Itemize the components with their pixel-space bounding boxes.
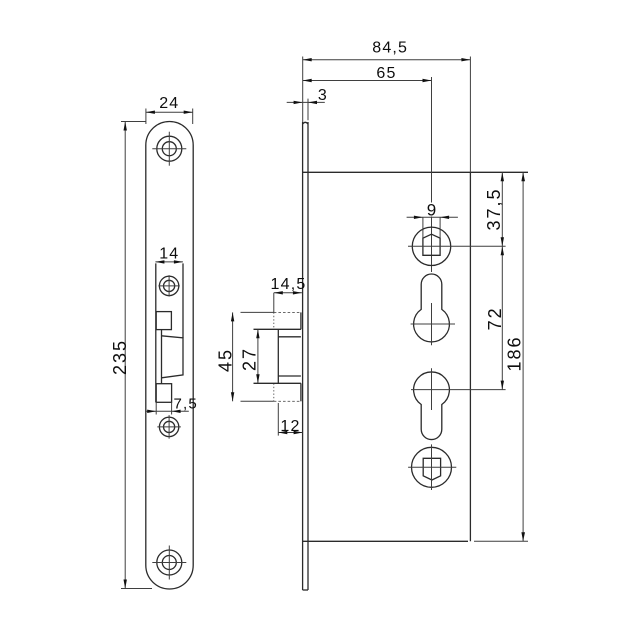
top screw hole [152, 132, 186, 166]
dimension 7,5 [146, 396, 198, 415]
svg-text:14: 14 [159, 246, 179, 263]
dimension 235 [110, 122, 152, 589]
dimension 12 [278, 403, 302, 436]
dimension 3 [287, 87, 327, 120]
upper small screw hole [158, 275, 179, 296]
latch slot cutout [156, 263, 183, 402]
latch housing hidden outline (dashed) [274, 312, 301, 401]
svg-text:65: 65 [376, 65, 396, 82]
dimension 37,5 [484, 172, 504, 246]
dimension 9 [407, 200, 458, 238]
svg-text:72: 72 [485, 306, 505, 330]
svg-text:12: 12 [280, 418, 300, 435]
svg-text:14,5: 14,5 [271, 276, 307, 293]
side view faceplate strip [303, 122, 308, 590]
dimension 84,5 [303, 40, 471, 173]
spindle hole bottom [408, 444, 456, 490]
euro cylinder hole upper (stem up) [411, 274, 455, 345]
svg-text:235: 235 [110, 339, 130, 375]
dimension 186 [505, 172, 525, 541]
bottom screw hole [152, 546, 186, 580]
latch guide square bottom [156, 384, 171, 403]
svg-text:7,5: 7,5 [174, 396, 198, 413]
latch bolt front [162, 330, 184, 384]
svg-text:9: 9 [427, 200, 436, 219]
dimension 14 [155, 246, 183, 264]
dimension 14,5 [271, 276, 307, 313]
dimension 65 [303, 65, 432, 82]
svg-text:3: 3 [318, 87, 327, 104]
svg-text:45: 45 [216, 348, 236, 372]
euro cylinder hole lower (stem down) [411, 368, 506, 439]
svg-text:24: 24 [159, 95, 179, 112]
lower small screw hole [157, 415, 181, 439]
spindle hole top [408, 227, 506, 265]
dimension 72 [485, 246, 505, 389]
svg-text:27: 27 [240, 347, 260, 371]
vertical centerline (65 extension) [431, 77, 433, 272]
svg-text:37,5: 37,5 [484, 187, 504, 230]
dimension 45 [216, 312, 274, 401]
dimension 24 [146, 95, 193, 124]
latch guide square top [156, 312, 171, 330]
svg-text:84,5: 84,5 [372, 40, 408, 57]
lock body outline [303, 172, 528, 541]
faceplate front view outline [146, 122, 193, 590]
dimension 27 [240, 329, 260, 383]
latch bolt side view [254, 329, 301, 383]
svg-text:186: 186 [505, 335, 525, 371]
